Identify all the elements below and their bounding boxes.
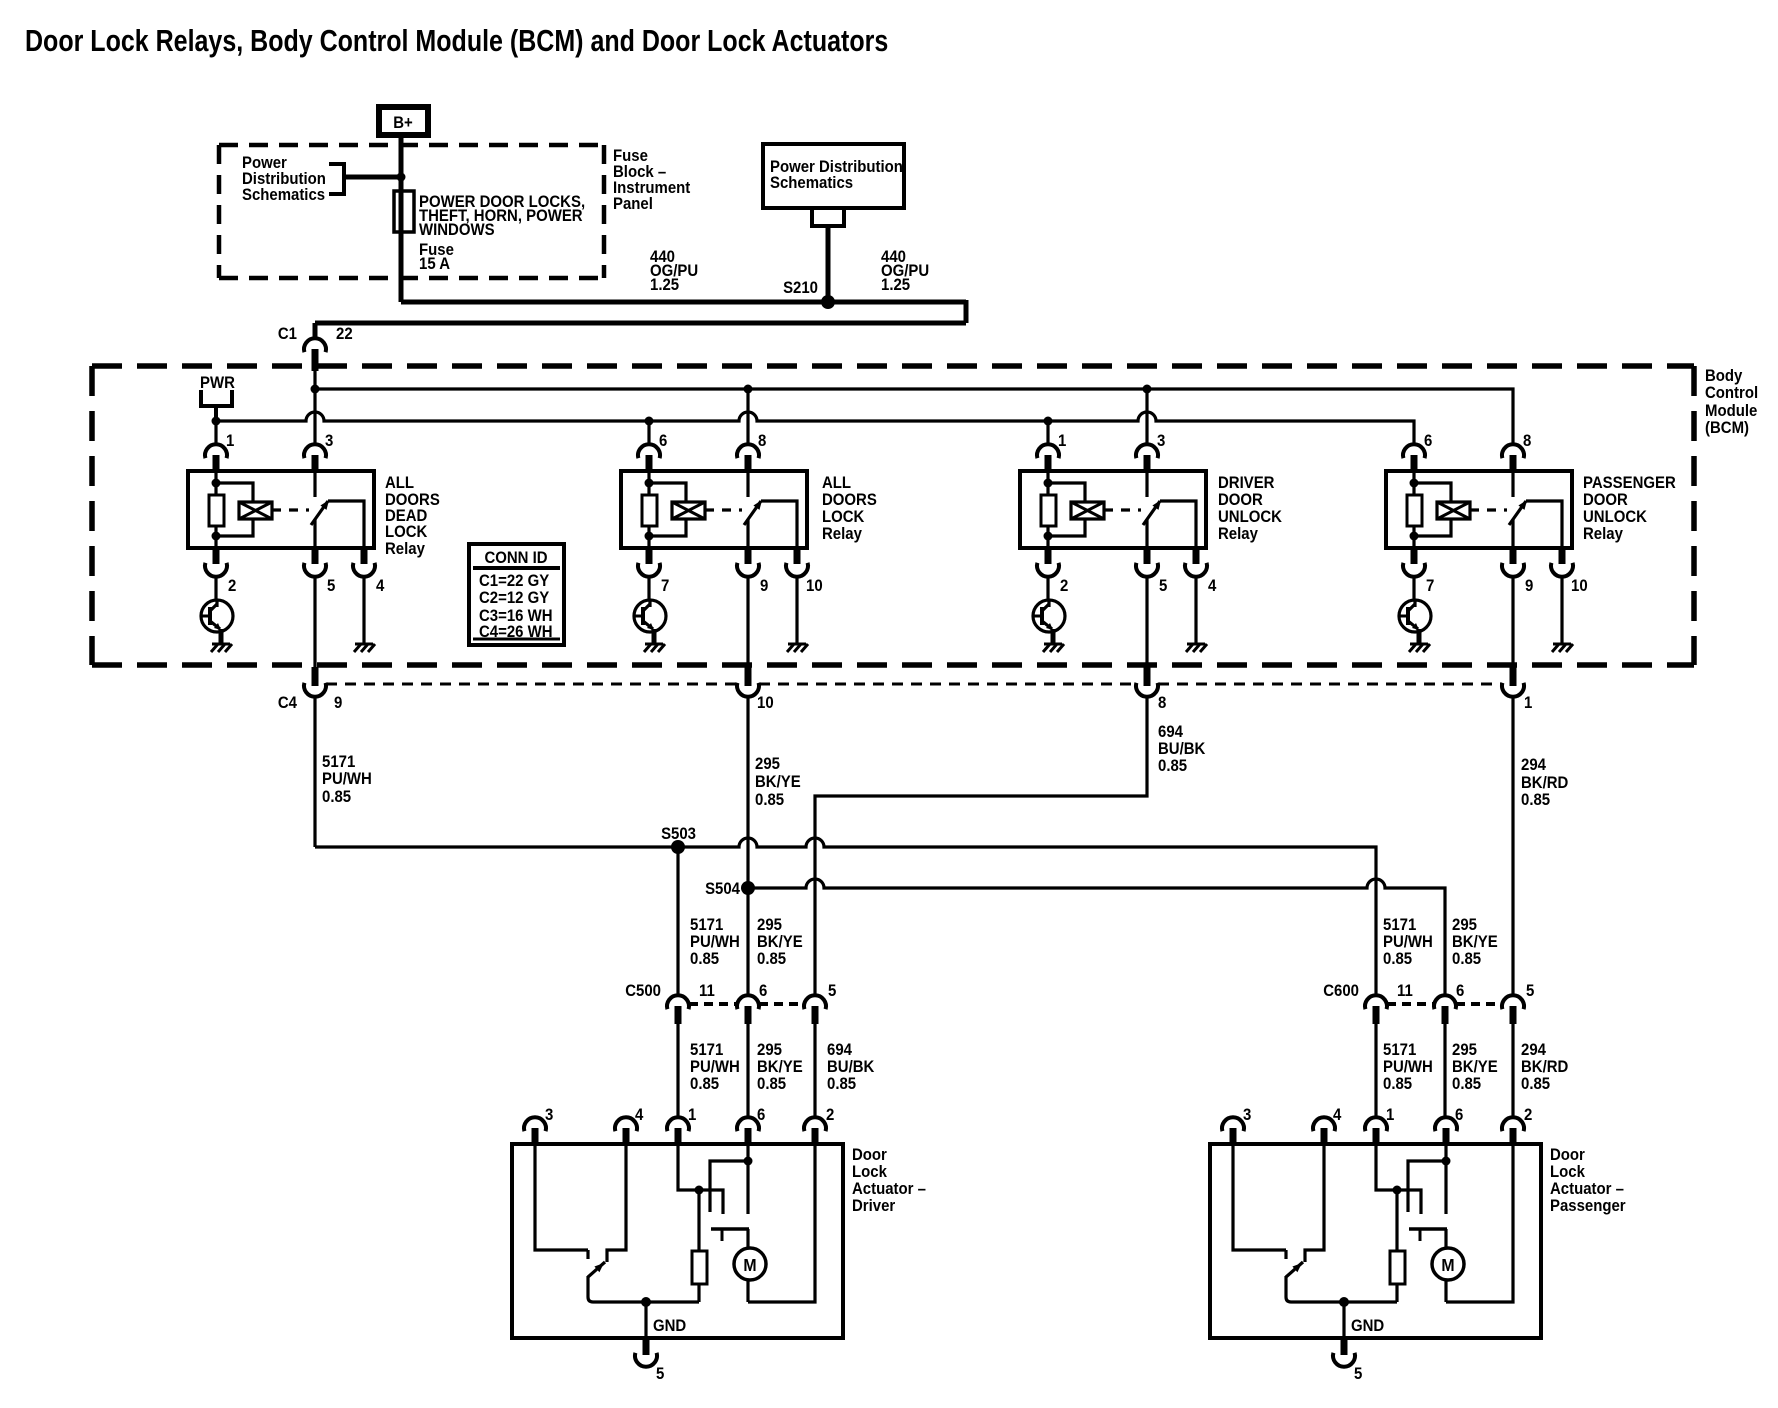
- relay switch output contact: [1160, 501, 1196, 548]
- relay coil winding (box with X): [1071, 502, 1104, 519]
- svg-text:0.85: 0.85: [1158, 757, 1187, 775]
- label: wire 295 BK/YE 0.85 (below C500): [757, 1041, 803, 1093]
- wire 440 OG/PU feeder bus: [315, 300, 966, 339]
- wire 294 BK/RD from C4-1: [1511, 697, 1514, 995]
- label pin 22: [336, 325, 353, 343]
- svg-text:Relay: Relay: [385, 540, 425, 558]
- svg-text:6: 6: [1424, 432, 1432, 450]
- svg-text:UNLOCK: UNLOCK: [1583, 508, 1647, 526]
- label: wire 5171 PU/WH 0.85 (below C600): [1383, 1041, 1433, 1093]
- svg-text:295: 295: [1452, 1041, 1477, 1059]
- svg-text:Actuator –: Actuator –: [852, 1180, 926, 1198]
- label: Power Distribution Schematics (left): [242, 154, 326, 204]
- svg-text:Body: Body: [1705, 367, 1742, 385]
- relay coil parallel loop: [1048, 483, 1085, 536]
- svg-text:S504: S504: [705, 880, 740, 898]
- svg-text:BU/BK: BU/BK: [827, 1058, 875, 1076]
- svg-text:Driver: Driver: [852, 1197, 895, 1215]
- svg-text:2: 2: [1524, 1106, 1532, 1124]
- relay coil wire: [645, 471, 654, 548]
- driver transistor to ground: [634, 577, 666, 644]
- Power Distribution Schematics reference bracket: [329, 162, 401, 196]
- connector C600 pin 11: [1365, 995, 1387, 1024]
- relay top pin connectors: [1037, 444, 1158, 471]
- svg-text:4: 4: [1208, 577, 1216, 595]
- relay switch fixed contact (top): [313, 471, 316, 497]
- relay box: [1020, 471, 1206, 548]
- svg-text:0.85: 0.85: [1452, 1075, 1481, 1093]
- svg-text:694: 694: [827, 1041, 852, 1059]
- motor M: [734, 1229, 766, 1302]
- relay switch fixed contact (top): [746, 471, 749, 497]
- wire bus to relay K1 pin 1: [214, 421, 217, 444]
- svg-text:4: 4: [376, 577, 384, 595]
- wire contact pin to ground: [362, 577, 365, 644]
- svg-text:Relay: Relay: [1218, 525, 1258, 543]
- Body Control Module (BCM) dashed box: [92, 366, 1694, 665]
- svg-text:0.85: 0.85: [1521, 791, 1550, 809]
- wire actuator pin 3 to lock switch contact: [1233, 1144, 1286, 1259]
- svg-text:BK/YE: BK/YE: [755, 773, 801, 791]
- relay bottom pin connectors: [205, 548, 375, 577]
- CONN ID table: [469, 544, 564, 645]
- wire actuator pin 3 to lock switch contact: [535, 1144, 588, 1259]
- splice S503: [671, 840, 685, 854]
- svg-text:7: 7: [1426, 577, 1434, 595]
- wire C500-5 to actuator pin 2: [813, 1024, 816, 1119]
- svg-text:0.85: 0.85: [690, 1075, 719, 1093]
- label C600: [1323, 982, 1359, 1000]
- svg-text:8: 8: [758, 432, 766, 450]
- label: ALL DOORS DEAD LOCK Relay: [385, 474, 440, 558]
- svg-text:DOORS: DOORS: [822, 491, 877, 509]
- svg-text:5: 5: [656, 1365, 664, 1383]
- relay switch movable arm: [311, 500, 329, 525]
- wire C500-11 to actuator pin 1: [676, 1024, 679, 1119]
- svg-text:295: 295: [755, 755, 780, 773]
- svg-text:Door: Door: [852, 1146, 887, 1164]
- label: wire 440 OG/PU 1.25 (right): [881, 248, 929, 294]
- svg-text:Door Lock Relays, Body Control: Door Lock Relays, Body Control Module (B…: [25, 23, 888, 57]
- svg-text:8: 8: [1158, 694, 1166, 712]
- svg-text:1.25: 1.25: [650, 276, 679, 294]
- motor switch contact bar: [711, 1229, 749, 1241]
- wire C500-6 to actuator pin 6: [746, 1024, 749, 1119]
- svg-text:4: 4: [1333, 1106, 1341, 1124]
- relay coil wire: [1044, 471, 1053, 548]
- label: wire 694 BU/BK 0.85 (below C500): [827, 1041, 875, 1093]
- label: wire 5171 PU/WH 0.85 (C4-9): [322, 753, 372, 806]
- svg-text:Schematics: Schematics: [770, 174, 853, 192]
- wire contact pin to ground: [1560, 577, 1563, 644]
- svg-text:3: 3: [545, 1106, 553, 1124]
- wire splice run S504 to C600-6: [748, 879, 1445, 995]
- svg-text:0.85: 0.85: [757, 1075, 786, 1093]
- relay switch movable arm: [1509, 500, 1527, 525]
- wire 694 BU/BK from C4-8: [815, 697, 1147, 995]
- svg-text:0.85: 0.85: [1452, 950, 1481, 968]
- relay bottom pin connectors: [1403, 548, 1573, 577]
- wire actuator pin 1 branch: [1376, 1144, 1421, 1214]
- actuator pin numbers (driver): [545, 1106, 834, 1124]
- label S210: [783, 279, 818, 297]
- ground (relay contact): [354, 644, 375, 652]
- connector C4 dashed line: [326, 683, 1502, 686]
- relay coil wire: [212, 471, 221, 548]
- connector C500 pin 5: [804, 995, 826, 1024]
- svg-text:Schematics: Schematics: [242, 186, 325, 204]
- C4 pin number labels: [334, 694, 1532, 712]
- svg-text:15 A: 15 A: [419, 255, 450, 273]
- svg-text:B+: B+: [393, 114, 413, 132]
- svg-text:Control: Control: [1705, 384, 1758, 402]
- relay top pin connectors: [205, 444, 326, 471]
- relay K3: DRIVER DOOR UNLOCK: [1020, 444, 1207, 667]
- svg-text:1: 1: [1524, 694, 1532, 712]
- wire relay output through BCM edge: [1511, 577, 1514, 667]
- wire from Power Distribution Schematics to S210: [826, 226, 831, 302]
- connector C4 pin 8: [1136, 667, 1158, 697]
- svg-text:BK/RD: BK/RD: [1521, 1058, 1568, 1076]
- relay K1: ALL DOORS DEAD LOCK: [188, 444, 375, 667]
- svg-text:9: 9: [1525, 577, 1533, 595]
- svg-text:C500: C500: [625, 982, 661, 1000]
- label: wire 295 BK/YE 0.85 (above C500): [757, 916, 803, 968]
- svg-text:6: 6: [1455, 1106, 1463, 1124]
- label: wire 5171 PU/WH 0.85 (above C500): [690, 916, 740, 968]
- actuator pin connectors: [1222, 1117, 1524, 1144]
- svg-text:BK/YE: BK/YE: [757, 933, 803, 951]
- svg-text:DOOR: DOOR: [1583, 491, 1628, 509]
- driver transistor to ground: [1399, 577, 1431, 644]
- relay coil winding (box with X): [239, 502, 272, 519]
- motor M: [1432, 1229, 1464, 1302]
- svg-text:2: 2: [228, 577, 236, 595]
- relay switch movable arm: [744, 500, 762, 525]
- label GND: [1351, 1317, 1384, 1335]
- relay top pin connectors: [1403, 444, 1524, 471]
- svg-text:5: 5: [327, 577, 335, 595]
- relay bottom pin connectors: [638, 548, 808, 577]
- relay switch output contact: [761, 501, 797, 548]
- svg-text:PU/WH: PU/WH: [1383, 1058, 1433, 1076]
- connector pin 5 (GND): [635, 1338, 657, 1367]
- label: Body Control Module (BCM): [1705, 367, 1758, 437]
- pin numbers relay K1: [226, 432, 384, 595]
- pin numbers relay K3: [1058, 432, 1216, 595]
- connector C500 pin 6: [737, 995, 759, 1024]
- motor switch contact bar: [1409, 1229, 1447, 1241]
- svg-text:BK/YE: BK/YE: [757, 1058, 803, 1076]
- relay switch fixed contact (top): [1511, 471, 1514, 497]
- ground (transistor emitter): [1409, 644, 1430, 652]
- svg-text:1: 1: [688, 1106, 696, 1124]
- node GND junction: [641, 1297, 651, 1307]
- wire actuator pin 6 branch: [710, 1144, 753, 1214]
- connector C4 pin 10: [737, 667, 759, 697]
- svg-text:10: 10: [1571, 577, 1588, 595]
- svg-text:6: 6: [757, 1106, 765, 1124]
- svg-text:M: M: [1441, 1255, 1454, 1275]
- label: wire 294 BK/RD 0.85 (C4-1): [1521, 756, 1568, 809]
- wire actuator pin 4 to switch contact: [607, 1144, 626, 1262]
- svg-text:6: 6: [759, 982, 767, 1000]
- label: DRIVER DOOR UNLOCK Relay: [1218, 474, 1282, 543]
- relay box: [1386, 471, 1572, 548]
- relay actuation dashed link: [1470, 508, 1507, 511]
- wire bus to relay K3 pin 1: [1046, 421, 1049, 444]
- splice S210: [821, 295, 835, 309]
- svg-text:9: 9: [760, 577, 768, 595]
- svg-text:Relay: Relay: [822, 525, 862, 543]
- svg-text:C600: C600: [1323, 982, 1359, 1000]
- svg-text:WINDOWS: WINDOWS: [419, 221, 495, 239]
- svg-text:Panel: Panel: [613, 195, 653, 213]
- label: fuse name/value: [419, 193, 585, 273]
- svg-text:BU/BK: BU/BK: [1158, 740, 1206, 758]
- svg-text:5171: 5171: [690, 916, 723, 934]
- label C500: [625, 982, 661, 1000]
- svg-text:0.85: 0.85: [1383, 1075, 1412, 1093]
- wire actuator pin 6 branch: [1408, 1144, 1451, 1214]
- wire actuator pin 2 to motor: [1446, 1144, 1513, 1302]
- relay switch output contact: [1526, 501, 1562, 548]
- wire bus to relay K2 pin 6: [647, 421, 650, 444]
- svg-text:1.25: 1.25: [881, 276, 910, 294]
- svg-text:Passenger: Passenger: [1550, 1197, 1626, 1215]
- lock position switch arm: [1286, 1262, 1303, 1277]
- wire relay output through BCM edge: [313, 577, 316, 667]
- svg-text:5171: 5171: [690, 1041, 723, 1059]
- C500 pin number labels: [699, 982, 836, 1000]
- ground (transistor emitter): [211, 644, 232, 652]
- svg-text:4: 4: [635, 1106, 643, 1124]
- svg-text:5171: 5171: [322, 753, 355, 771]
- ground (relay contact): [1186, 644, 1207, 652]
- wire GND stem: [644, 1302, 647, 1338]
- wire BCM internal bus (upper, to relay coil feeds from C1): [311, 385, 1514, 445]
- relay switch common wire: [1511, 519, 1514, 548]
- actuator box: [1210, 1144, 1541, 1338]
- relay switch fixed contact (top): [1145, 471, 1148, 497]
- svg-text:295: 295: [757, 1041, 782, 1059]
- label pin 5: [1354, 1365, 1362, 1383]
- connector C600 dashed line: [1387, 1002, 1502, 1006]
- fuse F1: POWER DOOR LOCKS 15 A: [394, 191, 414, 232]
- title: [25, 23, 888, 57]
- svg-text:PASSENGER: PASSENGER: [1583, 474, 1676, 492]
- relay coil parallel loop: [216, 483, 253, 536]
- relay coil resistor: [642, 495, 657, 526]
- svg-text:5: 5: [1354, 1365, 1362, 1383]
- label C1: [278, 325, 297, 343]
- svg-text:Module: Module: [1705, 402, 1757, 420]
- connector C500 pin 11: [667, 995, 689, 1024]
- svg-text:0.85: 0.85: [755, 791, 784, 809]
- wire actuator pin 4 to switch contact: [1305, 1144, 1324, 1262]
- relay coil winding (box with X): [672, 502, 705, 519]
- label: wire 5171 PU/WH 0.85 (below C500): [690, 1041, 740, 1093]
- svg-text:22: 22: [336, 325, 353, 343]
- svg-text:295: 295: [1452, 916, 1477, 934]
- svg-text:BK/RD: BK/RD: [1521, 774, 1568, 792]
- relay actuation dashed link: [272, 508, 309, 511]
- label: wire 295 BK/YE 0.85 (below C600): [1452, 1041, 1498, 1093]
- ground (relay contact): [1552, 644, 1573, 652]
- svg-text:C4=26 WH: C4=26 WH: [479, 623, 553, 641]
- relay actuation dashed link: [705, 508, 742, 511]
- relay switch common wire: [1145, 519, 1148, 548]
- svg-text:PU/WH: PU/WH: [690, 1058, 740, 1076]
- svg-text:0.85: 0.85: [690, 950, 719, 968]
- svg-text:1: 1: [1386, 1106, 1394, 1124]
- wire switch arm to ground bus: [1286, 1276, 1397, 1302]
- svg-text:3: 3: [325, 432, 333, 450]
- wire 5171 PU/WH from C4-9: [313, 697, 316, 847]
- svg-text:294: 294: [1521, 756, 1546, 774]
- label: Door Lock Actuator - Passenger: [1550, 1146, 1626, 1215]
- relay K4: PASSENGER DOOR UNLOCK: [1386, 444, 1573, 667]
- svg-text:Actuator –: Actuator –: [1550, 1180, 1624, 1198]
- svg-text:8: 8: [1523, 432, 1531, 450]
- pin numbers relay K4: [1424, 432, 1588, 595]
- svg-text:5171: 5171: [1383, 1041, 1416, 1059]
- resistor (actuator): [692, 1190, 707, 1302]
- svg-text:C1: C1: [278, 325, 297, 343]
- connector pin 5 (GND): [1333, 1338, 1355, 1367]
- svg-text:10: 10: [806, 577, 823, 595]
- svg-text:6: 6: [659, 432, 667, 450]
- label: Door Lock Actuator - Driver: [852, 1146, 926, 1215]
- lock position switch arm: [588, 1262, 605, 1277]
- svg-text:PU/WH: PU/WH: [690, 933, 740, 951]
- label C4: [278, 694, 297, 712]
- relay K2: ALL DOORS LOCK: [621, 444, 808, 667]
- svg-text:Door: Door: [1550, 1146, 1585, 1164]
- svg-text:1: 1: [1058, 432, 1066, 450]
- svg-text:2: 2: [1060, 577, 1068, 595]
- actuator pin connectors: [524, 1117, 826, 1144]
- relay coil resistor: [209, 495, 224, 526]
- svg-text:2: 2: [826, 1106, 834, 1124]
- svg-text:BK/YE: BK/YE: [1452, 933, 1498, 951]
- node: junction of Power Distribution Schematics tap: [397, 173, 406, 182]
- label: wire 295 BK/YE 0.85 (above C600): [1452, 916, 1498, 968]
- relay coil resistor: [1407, 495, 1422, 526]
- relay switch output contact: [328, 501, 364, 548]
- svg-text:3: 3: [1157, 432, 1165, 450]
- svg-text:C1=22 GY: C1=22 GY: [479, 572, 550, 590]
- wire splice run S503 to C600-11: [315, 838, 1376, 995]
- wire C600-11 to actuator pin 1: [1374, 1024, 1377, 1119]
- svg-text:5: 5: [1159, 577, 1167, 595]
- label: wire 5171 PU/WH 0.85 (above C600): [1383, 916, 1433, 968]
- wire actuator pin 2 to motor: [748, 1144, 815, 1302]
- connector C1 pin 22: [304, 338, 326, 371]
- svg-text:11: 11: [699, 982, 715, 1000]
- relay coil wire: [1410, 471, 1419, 548]
- wire bus to relay K2 pin 8: [746, 389, 749, 444]
- svg-text:DRIVER: DRIVER: [1218, 474, 1275, 492]
- connector C500 dashed line: [689, 1002, 804, 1006]
- svg-text:1: 1: [226, 432, 234, 450]
- svg-text:GND: GND: [1351, 1317, 1384, 1335]
- relay coil parallel loop: [1414, 483, 1451, 536]
- node PWR: [199, 374, 235, 421]
- svg-text:ALL: ALL: [822, 474, 851, 492]
- actuator pin numbers (passenger): [1243, 1106, 1532, 1124]
- svg-text:Relay: Relay: [1583, 525, 1623, 543]
- wire BCM internal bus (lower, PWR feed): [212, 412, 1415, 444]
- svg-text:LOCK: LOCK: [822, 508, 865, 526]
- pin numbers relay K2: [659, 432, 823, 595]
- label: wire 294 BK/RD 0.85 (below C600): [1521, 1041, 1568, 1093]
- svg-text:S503: S503: [661, 825, 696, 843]
- svg-text:ALL: ALL: [385, 474, 414, 492]
- svg-text:10: 10: [757, 694, 774, 712]
- wire C1 pin 22 into BCM: [313, 371, 316, 444]
- relay coil winding (box with X): [1437, 502, 1470, 519]
- svg-text:7: 7: [661, 577, 669, 595]
- wire bus to relay K3 pin 3: [1145, 389, 1148, 444]
- svg-text:694: 694: [1158, 723, 1183, 741]
- connector C4 pin 1: [1502, 667, 1524, 697]
- svg-text:5: 5: [1526, 982, 1534, 1000]
- label S504: [705, 880, 740, 898]
- actuator box: [512, 1144, 843, 1338]
- label S503: [661, 825, 696, 843]
- wire 295 BK/YE from C4-10: [746, 697, 749, 888]
- wire relay output through BCM edge: [746, 577, 749, 667]
- relay coil parallel loop: [649, 483, 686, 536]
- svg-text:0.85: 0.85: [1521, 1075, 1550, 1093]
- driver transistor to ground: [201, 577, 233, 644]
- fuse block dashed outline: [219, 145, 604, 278]
- ground (relay contact): [787, 644, 808, 652]
- relay switch common wire: [746, 519, 749, 548]
- door lock actuator - driver: [512, 1117, 843, 1383]
- relay top pin connectors: [638, 444, 759, 471]
- relay actuation dashed link: [1104, 508, 1141, 511]
- driver transistor to ground: [1033, 577, 1065, 644]
- label: ALL DOORS LOCK Relay: [822, 474, 877, 543]
- resistor (actuator): [1390, 1190, 1405, 1302]
- label: Fuse Block - Instrument Panel: [613, 147, 691, 213]
- svg-text:294: 294: [1521, 1041, 1546, 1059]
- splice S504: [741, 881, 755, 895]
- label: wire 295 BK/YE 0.85 (C4-10): [755, 755, 801, 809]
- svg-text:5: 5: [828, 982, 836, 1000]
- wire switch arm to ground bus: [588, 1276, 699, 1302]
- wire C600-5 to actuator pin 2: [1511, 1024, 1514, 1119]
- label: wire 440 OG/PU 1.25 (left): [650, 248, 698, 294]
- label: wire 694 BU/BK 0.85 (C4-8): [1158, 723, 1206, 775]
- wire contact pin to ground: [795, 577, 798, 644]
- svg-text:0.85: 0.85: [757, 950, 786, 968]
- svg-text:9: 9: [334, 694, 342, 712]
- wire C600-6 to actuator pin 6: [1443, 1024, 1446, 1119]
- Power Distribution Schematics reference box (right): [763, 144, 904, 208]
- node GND junction: [1339, 1297, 1349, 1307]
- svg-text:BK/YE: BK/YE: [1452, 1058, 1498, 1076]
- bracket under Power Distribution Schematics box: [810, 208, 846, 226]
- svg-text:DOOR: DOOR: [1218, 491, 1263, 509]
- svg-text:0.85: 0.85: [322, 788, 351, 806]
- wire actuator pin 1 branch: [678, 1144, 723, 1214]
- wire relay output through BCM edge: [1145, 577, 1148, 667]
- wire S503 to C500-11: [676, 847, 679, 995]
- door lock actuator - passenger: [1210, 1117, 1541, 1383]
